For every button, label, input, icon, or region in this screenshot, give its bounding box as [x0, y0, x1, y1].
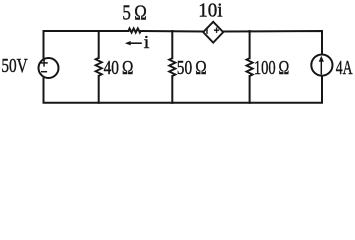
- wire: top rail between resistor R1 and source E1: [141, 30, 203, 33]
- dependent voltage source 10i (diamond): [203, 22, 223, 43]
- svg-text:i: i: [144, 32, 150, 52]
- resistor 5ohm (horizontal, top rail): [129, 28, 141, 32]
- wire: 50ohm branch top: [171, 31, 173, 58]
- svg-text:5 Ω: 5 Ω: [122, 1, 146, 25]
- wire: top rail from source E1 to top-right corner and down to I1: [223, 31, 322, 54]
- minus bar (left, vertical): [206, 28, 208, 34]
- wire: left side and top rail to resistor R1: [44, 31, 129, 58]
- wire: right side below I1, bottom rail, left side up to V1: [44, 76, 323, 103]
- wire: 50ohm branch bottom: [171, 76, 173, 103]
- svg-text:4A: 4A: [336, 57, 353, 79]
- svg-text:100 Ω: 100 Ω: [254, 57, 289, 79]
- plus sign (right): [214, 29, 219, 31]
- svg-text:40 Ω: 40 Ω: [104, 57, 134, 79]
- resistor 100ohm (vertical): [247, 58, 253, 76]
- wire: 100ohm branch bottom: [249, 76, 251, 103]
- voltage source V1 50V (circle with + -): [39, 58, 59, 78]
- resistor 50ohm (vertical): [169, 58, 175, 76]
- current source I1 4A (circle with up arrow): [311, 55, 332, 76]
- svg-text:10i: 10i: [198, 0, 223, 21]
- wire: 40ohm branch bottom: [98, 76, 100, 103]
- svg-text:50 Ω: 50 Ω: [177, 57, 207, 79]
- current arrow i (points left, under resistor 5ohm): [125, 41, 142, 45]
- wire: 100ohm branch top: [249, 31, 251, 58]
- svg-text:50V: 50V: [1, 55, 28, 77]
- wire: 40ohm branch top: [98, 31, 100, 58]
- resistor 40ohm (vertical): [96, 58, 102, 76]
